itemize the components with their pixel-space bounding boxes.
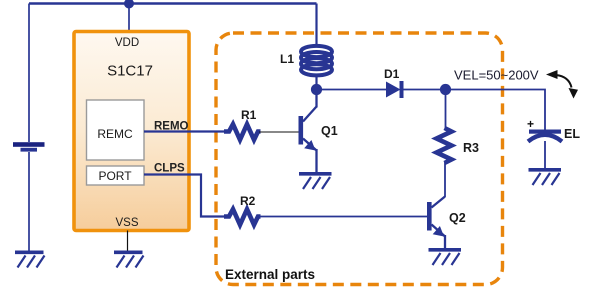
ground (below EL) (529, 170, 562, 185)
svg-text:VSS: VSS (115, 217, 138, 229)
block REMC (87, 100, 145, 160)
wire R3 to Q2 collector (444, 162, 446, 197)
transistor Q1 (NPN) (299, 90, 317, 173)
svg-text:D1: D1 (384, 67, 400, 81)
resistor R1 (224, 124, 261, 140)
wire R2 to Q2 base (259, 216, 428, 218)
wire top rail right vertical to L1 (315, 4, 317, 47)
wire L1 bottom to node (315, 76, 317, 90)
wire EL to ground (544, 141, 546, 169)
battery B1 (cell plates) (13, 142, 45, 151)
ground (bottom-left, battery) (15, 252, 45, 267)
wire battery to bottom-left ground (28, 152, 30, 251)
ground (below Q1) (299, 174, 332, 189)
wire CLPS from PORT to R2 (144, 175, 224, 217)
svg-text:EL: EL (564, 127, 580, 141)
resistor R3 (vertical) (437, 128, 452, 163)
IC block S1C17 (orange box) (74, 32, 189, 231)
svg-text:VEL=50~200V: VEL=50~200V (454, 68, 539, 83)
svg-text:R1: R1 (241, 108, 257, 122)
node junction dot at R3 top (440, 84, 451, 95)
resistor R2 (224, 209, 261, 225)
transistor Q2 (NPN) (427, 197, 445, 249)
wire top rail VDD (29, 2, 317, 5)
svg-text:+: + (527, 117, 534, 131)
wire node to EL capacitor (446, 90, 546, 131)
svg-text:External parts: External parts (225, 267, 315, 282)
svg-text:Q1: Q1 (321, 124, 338, 138)
wire node to D1 anode (317, 89, 387, 91)
svg-text:CLPS: CLPS (154, 163, 185, 175)
svg-text:R3: R3 (463, 141, 479, 155)
svg-text:L1: L1 (280, 52, 294, 66)
node junction dot on top rail above VDD pin (124, 0, 134, 9)
node junction dot below L1 (311, 84, 322, 95)
svg-text:Q2: Q2 (449, 211, 466, 225)
ground (below VSS) (114, 252, 144, 267)
svg-text:R2: R2 (240, 194, 256, 208)
wire VSS pin to ground (thin black) (127, 231, 129, 252)
wire VDD pin (128, 4, 130, 32)
capacitor EL (electrolytic) (528, 130, 562, 142)
svg-text:VDD: VDD (115, 37, 139, 49)
wire D1 cathode to node (403, 89, 446, 91)
variable-voltage curved arrow (546, 70, 578, 99)
wire left vertical from top rail to battery (28, 4, 30, 143)
svg-text:S1C17: S1C17 (107, 63, 153, 80)
svg-text:PORT: PORT (98, 169, 132, 183)
ground (below Q2) (429, 250, 462, 265)
svg-text:REMC: REMC (97, 127, 133, 141)
wire R1 to Q1 base (thin black) (259, 131, 299, 133)
wire node down to R3 (445, 90, 447, 130)
dashed box: External parts (216, 33, 503, 285)
wire REMO from REMC to R1 (144, 130, 224, 132)
block PORT (87, 166, 145, 185)
diode D1 (386, 81, 402, 98)
inductor L1 (coil) (301, 46, 332, 76)
